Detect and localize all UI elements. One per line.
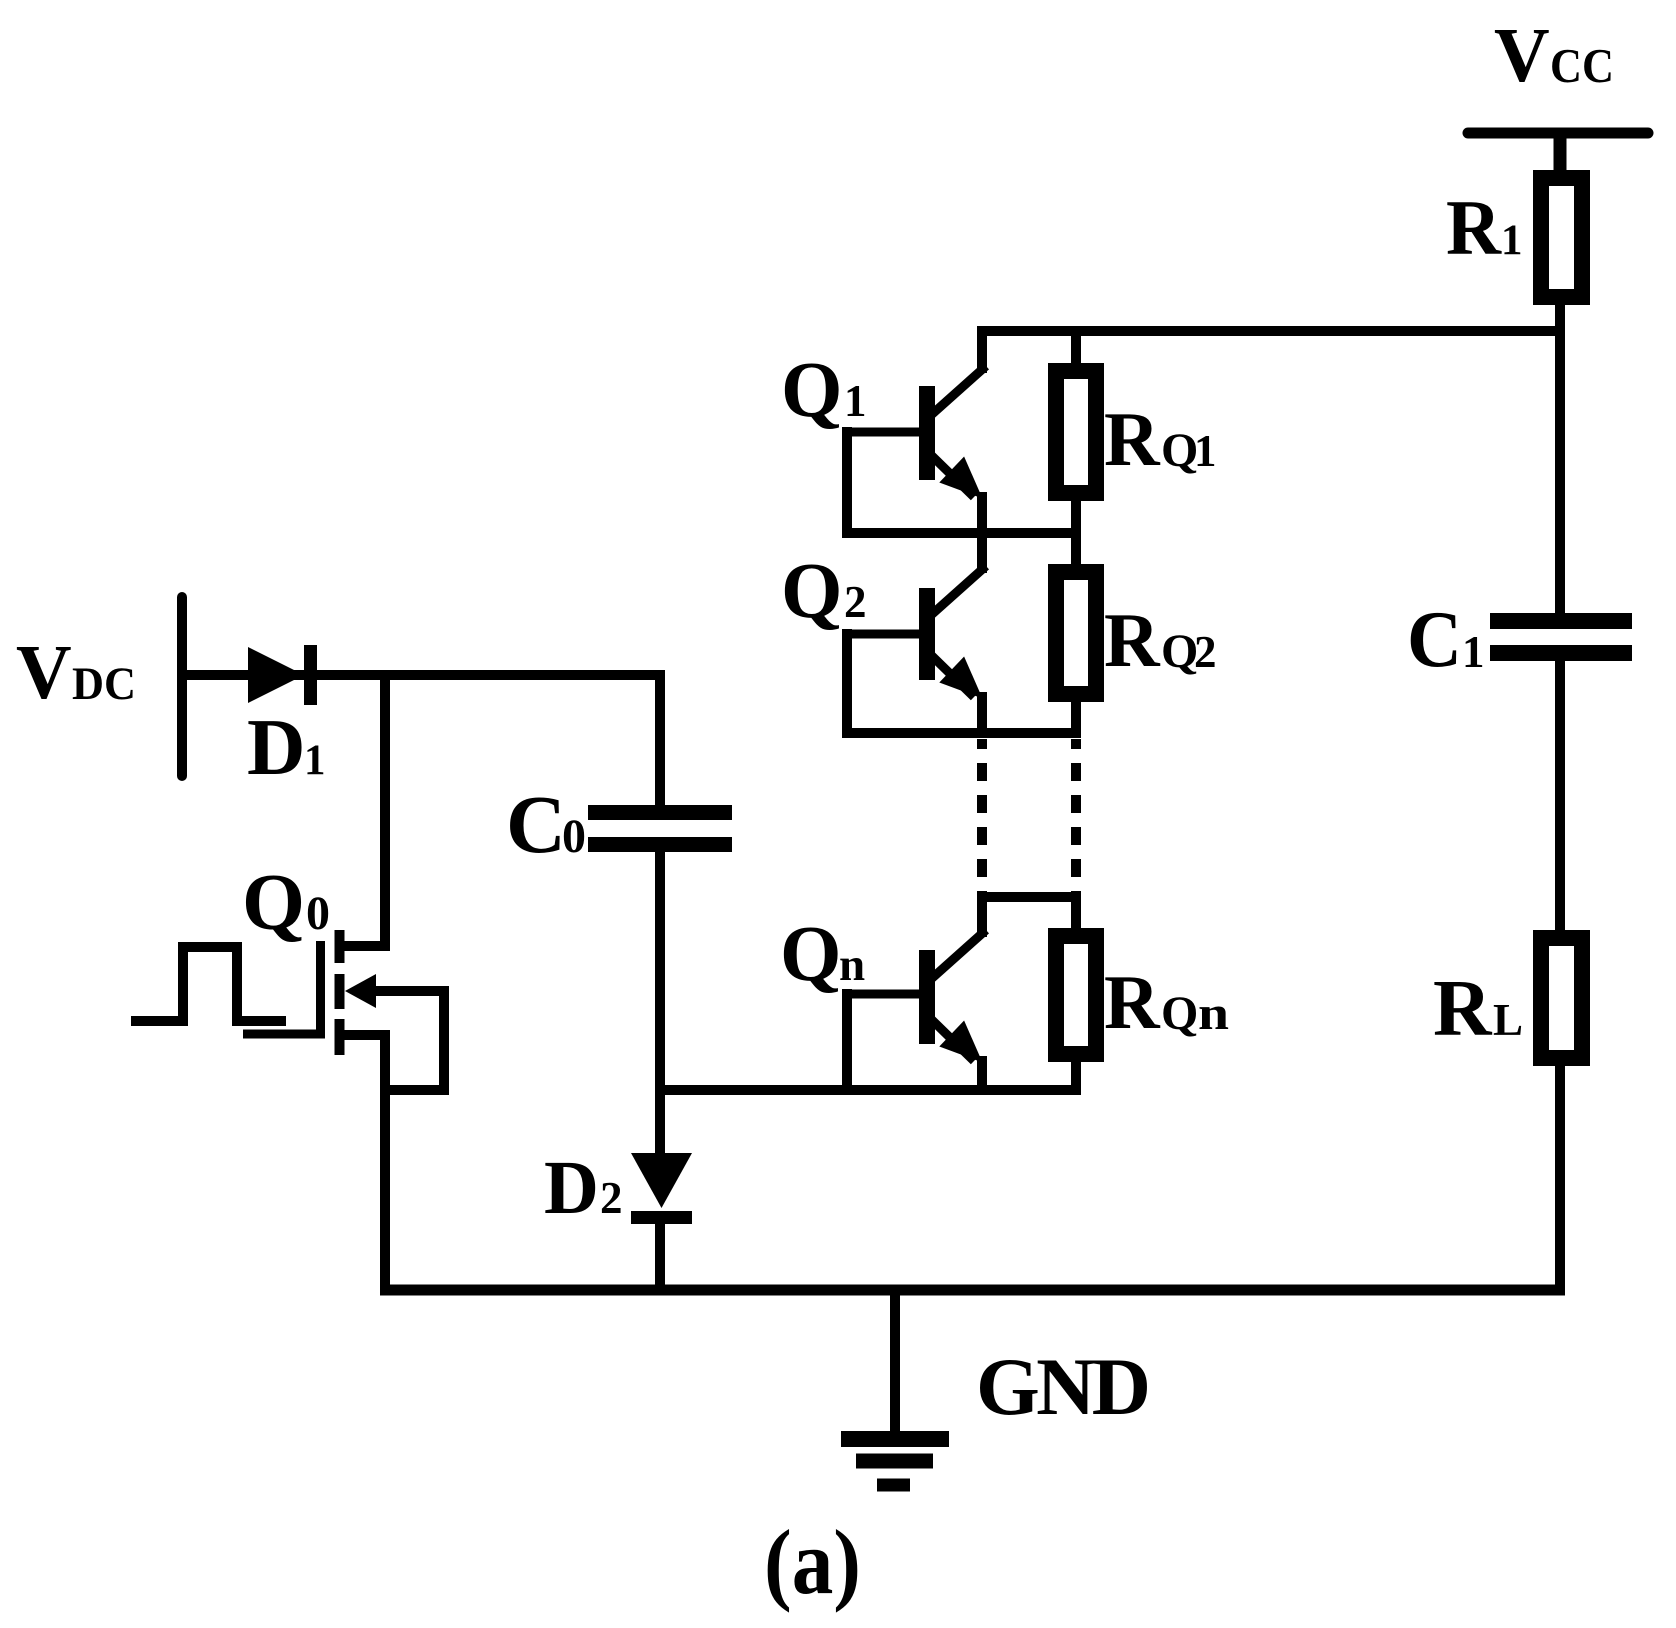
VDC terminal bar xyxy=(177,597,187,776)
wire Q1 emitter rail xyxy=(842,528,1081,538)
label RQ1 xyxy=(1104,396,1217,482)
dashed wire right xyxy=(1071,739,1081,897)
svg-text:R: R xyxy=(1104,959,1161,1045)
transistor Q0 (MOSFET) xyxy=(243,930,444,1090)
svg-text:1: 1 xyxy=(844,376,867,426)
svg-text:1: 1 xyxy=(1501,217,1523,264)
svg-text:GND: GND xyxy=(976,1341,1151,1432)
label D2 xyxy=(544,1146,623,1230)
svg-text:Q: Q xyxy=(1161,987,1198,1040)
label C0 xyxy=(506,778,586,870)
resistor RQ1 xyxy=(1056,331,1096,538)
label Qn xyxy=(780,911,865,998)
svg-text:R: R xyxy=(1433,963,1493,1053)
resistor RQ2 xyxy=(1056,533,1096,738)
svg-text:D: D xyxy=(544,1146,599,1230)
svg-text:2: 2 xyxy=(844,577,867,627)
wire C1 to RL xyxy=(1555,653,1565,938)
svg-text:CC: CC xyxy=(1550,38,1614,93)
svg-text:L: L xyxy=(1493,995,1523,1045)
resistor RQn xyxy=(1056,897,1096,1095)
wire VCC stub xyxy=(1554,133,1567,180)
wire RL to bus xyxy=(1555,1058,1565,1295)
ground symbol xyxy=(841,1290,949,1485)
wire Q2 emitter rail xyxy=(842,728,1081,738)
wire R1 to C1 xyxy=(1555,297,1565,621)
wire VDC to C0 xyxy=(182,675,660,810)
transistor Q2 xyxy=(843,528,986,738)
wire Q0 source to bus xyxy=(380,1030,390,1295)
wire Qn emitter rail xyxy=(660,1085,1081,1095)
label VDC xyxy=(16,629,136,715)
capacitor C1 xyxy=(1490,613,1632,661)
label RQn xyxy=(1104,959,1229,1045)
svg-text:1: 1 xyxy=(1194,426,1217,476)
wire top rail xyxy=(977,326,1565,336)
wire Q1 base loop xyxy=(842,427,852,538)
label VCC xyxy=(1494,12,1614,98)
svg-text:0: 0 xyxy=(306,887,330,940)
transistor Q1 xyxy=(843,326,986,538)
capacitor C0 xyxy=(588,805,732,852)
svg-text:R: R xyxy=(1104,597,1161,683)
svg-text:R: R xyxy=(1446,184,1503,271)
label Q0 xyxy=(242,857,330,947)
svg-text:2: 2 xyxy=(600,1173,623,1223)
svg-text:n: n xyxy=(1198,987,1229,1040)
pulse input xyxy=(131,947,286,1021)
svg-text:D: D xyxy=(247,702,306,792)
svg-text:Q: Q xyxy=(781,548,842,635)
wire ground bus xyxy=(380,1285,1565,1296)
svg-text:R: R xyxy=(1104,396,1161,482)
diode D1 xyxy=(248,645,317,705)
label R1 xyxy=(1446,184,1523,271)
transistor Qn xyxy=(843,892,986,1095)
wire Q2 base loop xyxy=(842,629,852,738)
svg-text:V: V xyxy=(1494,12,1550,98)
wire Qn top xyxy=(977,892,1081,902)
wire D2 to bus xyxy=(655,1222,665,1295)
svg-text:Q: Q xyxy=(1161,625,1198,678)
resistor RL xyxy=(1541,938,1582,1058)
wire C0 to D2 xyxy=(655,852,665,1158)
svg-text:2: 2 xyxy=(1194,627,1217,677)
label Q1 xyxy=(781,347,867,434)
svg-text:Q: Q xyxy=(781,347,842,434)
wire junction to Q0 drain xyxy=(380,675,390,951)
svg-text:(a): (a) xyxy=(764,1511,861,1613)
svg-text:Q: Q xyxy=(1161,424,1198,477)
svg-text:DC: DC xyxy=(72,658,136,710)
svg-text:Q: Q xyxy=(780,911,841,998)
label Q2 xyxy=(781,548,867,635)
label RQ2 xyxy=(1104,597,1217,683)
label RL xyxy=(1433,963,1523,1053)
svg-text:C: C xyxy=(1407,596,1462,684)
svg-text:C: C xyxy=(506,778,566,870)
svg-text:1: 1 xyxy=(304,737,326,784)
svg-text:V: V xyxy=(16,629,72,715)
resistor R1 xyxy=(1541,178,1582,297)
label D1 xyxy=(247,702,326,792)
svg-text:0: 0 xyxy=(562,810,586,863)
diode D2 xyxy=(631,1153,692,1224)
svg-text:1: 1 xyxy=(1462,627,1485,677)
dashed wire left xyxy=(977,739,987,897)
wire Qn base loop xyxy=(842,989,852,1095)
label C1 xyxy=(1407,596,1485,684)
svg-text:Q: Q xyxy=(242,857,305,947)
svg-text:n: n xyxy=(839,939,865,991)
VCC supply bar xyxy=(1468,128,1648,139)
